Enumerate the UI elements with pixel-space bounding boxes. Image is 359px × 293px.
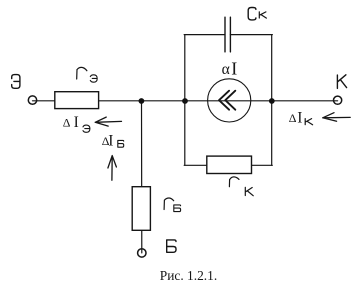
svg-text:Δ: Δ <box>63 116 71 130</box>
svg-text:I: I <box>108 132 113 149</box>
svg-text:I: I <box>231 58 237 78</box>
svg-text:Рис. 1.2.1.: Рис. 1.2.1. <box>160 268 217 283</box>
svg-text:α: α <box>222 61 230 78</box>
svg-text:I: I <box>297 110 302 127</box>
svg-text:Δ: Δ <box>289 111 297 125</box>
svg-text:I: I <box>74 114 79 131</box>
